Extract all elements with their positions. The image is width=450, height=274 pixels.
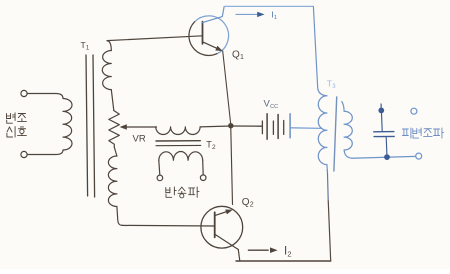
T1 secondary upper winding: [102, 51, 111, 90]
T2 secondary winding (arcs): [159, 151, 203, 160]
carrier terminal right: [200, 175, 206, 181]
svg-text:2: 2: [212, 144, 216, 151]
output terminal top: [411, 108, 417, 114]
carrier terminal left: [157, 175, 163, 181]
svg-text:2: 2: [250, 202, 254, 209]
Q2 collector to bottom rail: [238, 250, 240, 262]
svg-text:VR: VR: [133, 134, 146, 145]
capacitor plates: [374, 131, 394, 133]
VR wiper wire: [122, 126, 157, 128]
wire node to capacitor: [381, 113, 384, 130]
junction node: [228, 123, 233, 128]
Q2 emitter arrowhead: [225, 210, 233, 215]
T3 primary to bottom lead: [326, 165, 329, 172]
wire T1 primary to input bottom: [27, 150, 63, 155]
svg-text:1: 1: [274, 15, 277, 21]
T1 core line right: [93, 55, 95, 197]
svg-text:Q: Q: [232, 50, 240, 61]
output bottom wire: [352, 156, 416, 158]
Q2 base bar: [214, 212, 216, 237]
wire junction to battery: [231, 125, 262, 127]
battery Vcc plates: [261, 121, 263, 134]
Q1 base bar: [202, 22, 204, 44]
top rail wire: [224, 5, 313, 7]
I1 current arrow line: [236, 13, 258, 15]
T1 core line left: [86, 55, 88, 196]
input terminal bottom: [21, 151, 27, 157]
Q2 emitter line: [215, 211, 229, 216]
right vertical wire upper part: [326, 170, 329, 200]
svg-text:Q: Q: [242, 197, 250, 208]
Q1 collector line: [203, 7, 225, 23]
wire T1 secondary bottom to Q2 base: [122, 224, 215, 227]
svg-text:CC: CC: [270, 104, 278, 110]
label: carrier (반송파): [166, 187, 176, 197]
T2 primary winding (scallops): [156, 127, 200, 135]
T1 secondary lower winding: [108, 156, 117, 207]
Q1 emitter arrowhead: [215, 46, 222, 51]
wire top rail down to T3 primary: [313, 7, 327, 96]
right vertical wire lower part: [328, 200, 331, 261]
variable resistor VR zigzag: [109, 111, 120, 148]
transistor Q2 circle: [201, 206, 243, 248]
output bottom node dot: [384, 154, 390, 160]
I2 arrowhead: [270, 247, 278, 253]
T2 core line upper: [156, 140, 200, 142]
label: modulation signal (변조 신호): [7, 113, 16, 123]
stub above top node: [380, 104, 382, 108]
output terminal bottom: [416, 153, 422, 159]
wire T2 to center junction: [200, 125, 231, 128]
wire battery to T3 center tap: [291, 127, 322, 130]
T3 secondary winding: [342, 102, 344, 112]
wire Q1 emitter down to junction: [223, 51, 231, 124]
wire VR to lower coil: [114, 147, 117, 156]
Q2 collector line: [215, 234, 239, 249]
T3 core line: [334, 97, 337, 171]
input terminal top: [21, 90, 27, 96]
bottom rail wire: [236, 260, 331, 262]
output top node dot: [378, 108, 384, 114]
T2 secondary right leg: [202, 160, 205, 175]
transformer T1 primary winding: [63, 99, 72, 151]
T2 core line lower: [156, 144, 201, 146]
wire input top to T1 primary: [27, 94, 63, 99]
transistor Q1 circle (blue top arc): [195, 16, 229, 54]
wire coil to VR: [111, 90, 114, 111]
T3 primary winding: [318, 96, 327, 165]
wire capacitor to bottom node: [385, 138, 388, 155]
T3 secondary bottom curl: [344, 150, 352, 158]
svg-text:2: 2: [287, 250, 291, 259]
wire junction down to Q2 emitter: [231, 128, 233, 204]
svg-text:1: 1: [240, 54, 244, 61]
corner top of T1 secondary: [107, 41, 111, 51]
I2 current arrow line: [248, 249, 268, 251]
Q1 emitter line: [203, 42, 220, 50]
transistor Q1 circle (dark bottom arc): [189, 22, 217, 56]
wire T1 secondary top to Q1 base: [107, 36, 203, 41]
corner bottom of T1 secondary: [117, 207, 123, 226]
T2 secondary left leg: [159, 160, 160, 175]
I1 arrowhead: [257, 12, 264, 17]
label: modulated output (피변조파): [402, 128, 411, 138]
VR wiper arrowhead: [120, 124, 127, 129]
